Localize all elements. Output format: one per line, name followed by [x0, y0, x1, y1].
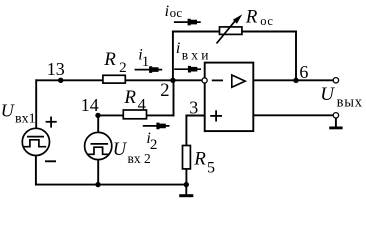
wire Uvx1 top vertical [35, 80, 37, 128]
svg-text:3: 3 [189, 98, 198, 118]
svg-text:U: U [320, 84, 335, 105]
wire Uvx2 bottom vertical [97, 160, 99, 185]
op-amp gain triangle [232, 75, 245, 87]
label Uvyx (output voltage) [320, 84, 363, 111]
wire output top [253, 79, 333, 81]
svg-text:R: R [245, 7, 258, 28]
variable-resistor arrow of Roc [217, 19, 238, 44]
source Uvx1 [1, 100, 57, 161]
node 13 [47, 59, 65, 83]
svg-text:2: 2 [119, 60, 127, 76]
svg-text:R: R [103, 49, 116, 70]
junction dot at R5 bottom [184, 182, 189, 187]
pulse waveform symbol of Uvx2 [91, 143, 109, 145]
svg-text:ос: ос [170, 5, 183, 20]
wire noninverting input [186, 115, 204, 117]
svg-text:U: U [1, 100, 15, 120]
svg-text:вх 2: вх 2 [128, 151, 151, 166]
output terminal (common) [333, 113, 338, 118]
svg-text:ос: ос [260, 14, 273, 28]
svg-text:1: 1 [142, 54, 150, 70]
op-amp U1 [202, 63, 253, 132]
svg-text:2: 2 [150, 137, 158, 153]
minus sign of Uvx1 [45, 160, 56, 162]
node 14 [81, 95, 101, 118]
wire R4 branch vertical to node 2 [173, 80, 175, 115]
pulse waveform symbol of Uvx1 [27, 136, 44, 138]
ground (bottom common) [179, 185, 193, 196]
svg-text:6: 6 [299, 62, 308, 82]
op-amp plus sign [210, 115, 222, 117]
source Uvx2 [85, 132, 151, 166]
current i1 label and arrow [135, 46, 163, 72]
svg-text:2: 2 [160, 81, 169, 101]
svg-text:U: U [113, 140, 128, 160]
current i2 label and arrow [143, 123, 170, 153]
resistor R4 [123, 87, 146, 119]
svg-text:4: 4 [138, 95, 146, 114]
svg-text:вхи: вхи [182, 48, 212, 63]
wire R5 bottom vertical [185, 169, 187, 184]
wire R4 horizontal [98, 114, 174, 116]
op-amp inverting input bubble [202, 78, 207, 83]
wire output bottom common [253, 114, 333, 116]
current ivxi label and arrow [174, 40, 211, 72]
wire main input (node 13 to inverting input) [37, 79, 203, 81]
resistor Roc (variable, feedback) [217, 7, 274, 44]
wire feedback top horizontal [173, 31, 296, 33]
svg-text:14: 14 [81, 95, 99, 115]
wire feedback left vertical [172, 32, 174, 81]
wire R5 top vertical [185, 116, 187, 146]
svg-text:i: i [176, 40, 180, 57]
wire Uvx1 bottom vertical [35, 155, 37, 184]
wire feedback right vertical [295, 32, 297, 81]
svg-text:R: R [193, 149, 206, 170]
resistor R2 [103, 49, 127, 83]
svg-text:i: i [165, 3, 169, 20]
ground (output common) [329, 118, 342, 128]
svg-text:13: 13 [47, 59, 65, 79]
svg-text:вх1: вх1 [15, 112, 36, 127]
svg-text:вых: вых [337, 95, 363, 111]
junction dot at Uvx2 bottom [95, 182, 100, 187]
svg-text:R: R [123, 87, 136, 108]
svg-text:5: 5 [207, 160, 215, 177]
op-amp minus sign [212, 79, 223, 81]
resistor R5 [183, 146, 216, 177]
node 2 [160, 78, 175, 101]
plus sign of Uvx1 [46, 121, 57, 123]
current ioc label and arrow [165, 3, 201, 26]
node 6 [293, 62, 308, 83]
output terminal (signal) [333, 78, 338, 83]
wire bottom common [36, 184, 186, 186]
wire Uvx2 top vertical [97, 115, 99, 132]
